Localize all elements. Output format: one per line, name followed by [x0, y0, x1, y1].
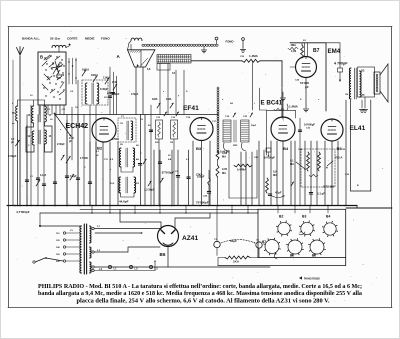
svg-text:V1: V1: [70, 230, 73, 232]
svg-text:4A: 4A: [136, 158, 139, 161]
svg-text:B6: B6: [160, 252, 166, 257]
svg-text:x: x: [60, 129, 62, 131]
svg-text:C30: C30: [298, 149, 303, 151]
svg-text:C11: C11: [104, 159, 109, 161]
svg-text:50µF: 50µF: [230, 239, 237, 243]
svg-text:1,4MA: 1,4MA: [249, 54, 259, 58]
svg-text:pF: pF: [305, 85, 309, 89]
svg-text:11KA: 11KA: [103, 76, 110, 80]
svg-text:0,47MA: 0,47MA: [237, 168, 246, 172]
svg-text:B4: B4: [326, 215, 330, 219]
svg-text:10'000pF: 10'000pF: [264, 156, 275, 160]
svg-text:0,1M: 0,1M: [291, 51, 296, 53]
svg-text:750 A: 750 A: [335, 156, 342, 160]
svg-text:B5: B5: [312, 254, 316, 258]
svg-text:x: x: [110, 169, 112, 171]
svg-text:MA: MA: [222, 155, 226, 159]
svg-text:3:30pF: 3:30pF: [100, 88, 109, 91]
svg-text:10'000pF: 10'000pF: [304, 123, 315, 127]
svg-text:B: B: [40, 55, 43, 60]
svg-text:S3: S3: [104, 97, 107, 99]
svg-text:C3: C3: [62, 109, 66, 111]
svg-text:5/3: 5/3: [361, 70, 365, 73]
svg-text:4MA: 4MA: [291, 43, 297, 47]
svg-text:C2: C2: [47, 109, 51, 111]
svg-text:220pF: 220pF: [197, 175, 205, 179]
svg-text:C8: C8: [120, 123, 124, 125]
svg-text:0,1 µF: 0,1 µF: [317, 192, 325, 196]
svg-text:4 700pF: 4 700pF: [334, 62, 348, 66]
svg-text:6,8: 6,8: [147, 68, 151, 71]
svg-text:MA: MA: [290, 162, 294, 166]
svg-text:14: 14: [49, 135, 52, 138]
svg-text:C24: C24: [203, 195, 208, 198]
svg-text:C23: C23: [240, 56, 245, 58]
svg-text:55: 55: [12, 112, 15, 115]
svg-text:C9: C9: [140, 119, 144, 121]
svg-text:t: t: [254, 102, 255, 105]
svg-text:µF: µF: [96, 155, 99, 157]
svg-text:44,6pF: 44,6pF: [119, 200, 129, 204]
svg-text:17: 17: [49, 114, 52, 117]
svg-text:22: 22: [168, 155, 171, 157]
svg-text:B2: B2: [97, 146, 103, 151]
svg-text:C2: C2: [256, 240, 260, 242]
svg-text:5/3: 5/3: [136, 183, 140, 185]
svg-text:MEDIE: MEDIE: [85, 37, 95, 41]
svg-text:0,1µF: 0,1µF: [40, 174, 47, 177]
svg-text:a: a: [222, 99, 224, 101]
svg-text:14: 14: [28, 114, 31, 117]
svg-text:2:30pF: 2:30pF: [8, 154, 17, 158]
svg-text:C: C: [28, 145, 30, 147]
svg-text:4,5: 4,5: [110, 158, 114, 161]
svg-text:4,7'000pF: 4,7'000pF: [16, 210, 30, 214]
svg-text:0,5: 0,5: [273, 170, 277, 174]
svg-text:L6: L6: [50, 119, 53, 121]
svg-text:0,68: 0,68: [222, 151, 228, 155]
svg-text:S4: S4: [230, 102, 233, 105]
svg-text:160: 160: [56, 254, 60, 256]
svg-text:B2: B2: [279, 215, 283, 219]
svg-text:x: x: [318, 99, 320, 101]
svg-text:MA: MA: [273, 173, 277, 177]
svg-text:125: 125: [56, 240, 60, 242]
svg-text:C32: C32: [306, 128, 311, 130]
svg-text:KA: KA: [168, 158, 172, 161]
svg-text:B: B: [357, 185, 359, 187]
svg-text:37'500pF: 37'500pF: [162, 171, 175, 175]
svg-text:2:30pF: 2:30pF: [57, 143, 65, 146]
svg-text:EM4: EM4: [328, 48, 341, 55]
svg-text:S6: S6: [136, 145, 139, 147]
svg-text:47µF: 47µF: [275, 191, 282, 195]
svg-text:0,1µF: 0,1µF: [70, 174, 77, 178]
svg-text:C18: C18: [225, 116, 230, 118]
svg-text:C: C: [140, 153, 142, 155]
svg-text:B4: B4: [283, 146, 289, 151]
svg-text:1MA: 1MA: [152, 97, 158, 101]
svg-text:C14: C14: [186, 116, 191, 119]
svg-text:placca della finale, 254 V all: placca della finale, 254 V allo schermo,…: [77, 297, 330, 304]
svg-text:B7: B7: [262, 240, 266, 244]
svg-text:1MA: 1MA: [166, 97, 172, 101]
svg-text:CORTE: CORTE: [67, 37, 78, 41]
svg-text:0,3: 0,3: [186, 159, 190, 161]
svg-text:1M: 1M: [345, 94, 348, 96]
svg-text:L5: L5: [30, 95, 33, 97]
svg-text:C36: C36: [345, 174, 350, 176]
svg-text:110: 110: [56, 233, 60, 235]
svg-text:B7: B7: [313, 48, 320, 54]
svg-text:B6: B6: [290, 254, 294, 258]
svg-text:y: y: [178, 95, 180, 97]
svg-text:ECH42: ECH42: [66, 123, 89, 130]
svg-text:1,2:30pF: 1,2:30pF: [144, 188, 155, 192]
svg-text:C7: C7: [121, 116, 125, 118]
svg-text:x: x: [163, 91, 165, 93]
svg-text:A: A: [117, 54, 121, 59]
svg-text:C16: C16: [171, 117, 176, 119]
svg-text:C4: C4: [172, 72, 176, 75]
svg-text:B3: B3: [196, 146, 202, 151]
svg-text:BANDA ALL.: BANDA ALL.: [22, 37, 40, 41]
svg-text:B3: B3: [302, 215, 306, 219]
svg-text:220: 220: [56, 261, 60, 263]
svg-text:EL41: EL41: [350, 125, 366, 132]
svg-text:S: S: [186, 91, 188, 93]
svg-text:PIANO ROSSI: PIANO ROSSI: [304, 278, 320, 281]
svg-text:EF41: EF41: [183, 105, 199, 112]
svg-text:S: S: [300, 99, 302, 101]
svg-text:C15: C15: [156, 117, 161, 119]
svg-text:1,4A: 1,4A: [360, 94, 365, 97]
svg-text:FONO: FONO: [226, 40, 235, 44]
svg-text:0/1: 0/1: [303, 40, 307, 42]
svg-text:E BC41: E BC41: [261, 100, 283, 107]
svg-text:S5: S5: [120, 144, 123, 146]
svg-text:0,05: 0,05: [222, 167, 228, 171]
svg-text:140: 140: [56, 246, 60, 249]
svg-text:MF2: MF2: [233, 145, 238, 147]
svg-text:C25: C25: [254, 157, 259, 159]
svg-text:19: 19: [28, 135, 31, 138]
svg-text:C20: C20: [243, 116, 248, 118]
svg-text:75'000pF: 75'000pF: [196, 201, 209, 205]
svg-text:5,7: 5,7: [97, 226, 101, 228]
svg-text:AZ41: AZ41: [182, 235, 198, 242]
svg-text:0,1: 0,1: [290, 159, 294, 163]
svg-text:C1: C1: [30, 176, 34, 178]
svg-text:0,1: 0,1: [96, 151, 100, 153]
svg-text:1KA: 1KA: [233, 260, 240, 264]
svg-text:banda allargata a 9,4 Mc, medi: banda allargata a 9,4 Mc, medie a 1620 e…: [38, 290, 363, 297]
svg-text:10,5: 10,5: [110, 183, 115, 185]
svg-text:FONO: FONO: [101, 37, 110, 41]
svg-text:an: an: [12, 123, 15, 125]
svg-text:C: C: [84, 167, 86, 169]
svg-text:C17: C17: [212, 121, 217, 123]
svg-text:270pF: 270pF: [107, 92, 115, 95]
svg-text:C4: C4: [70, 90, 74, 93]
svg-text:170pF: 170pF: [131, 93, 139, 96]
svg-text:PHILIPS RADIO - Mod. BI 510 A: PHILIPS RADIO - Mod. BI 510 A - La tarat…: [38, 283, 362, 290]
svg-text:MA: MA: [222, 171, 226, 175]
svg-text:25-11m: 25-11m: [50, 37, 61, 41]
svg-text:C35: C35: [341, 149, 346, 151]
svg-text:1,4MA: 1,4MA: [289, 105, 299, 109]
svg-text:50pF: 50pF: [251, 125, 257, 127]
